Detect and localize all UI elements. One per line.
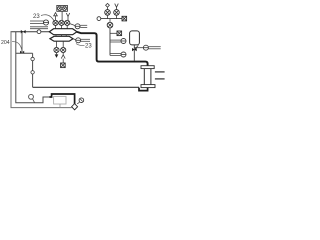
G2 stubs right [80,24,87,26]
arrow at valve [135,45,138,48]
pump block light box [54,96,66,104]
funnel above right valve [115,4,119,8]
stem from pair down [61,11,63,20]
port upper [155,71,165,73]
node circle lower [31,71,34,74]
svg-text:23: 23 [33,14,40,20]
right manifold: diamond above left valve [106,3,110,7]
outer down pipe left [11,32,72,108]
below-lens valve left [54,47,59,52]
diamond junction [72,104,78,110]
upper lens manifold [49,29,77,35]
vertical drop from lower valve [109,28,111,56]
lower lens manifold [50,36,73,41]
X-box below funnel [61,63,66,68]
valve below cylinder [132,48,134,51]
stem below cylinder [133,45,135,61]
valve V1 on main pipe [21,30,23,34]
thick supply pipe [77,32,148,66]
inner left vertical from main pipe [16,32,50,103]
leader from 23 to valve row [41,15,55,23]
svg-text:23: 23 [85,44,92,50]
arrow-up symbol [55,16,57,20]
drop from pump block [59,104,61,108]
branch to X-box [110,32,117,34]
right valve circle [114,10,120,16]
top solenoid valve block [57,5,68,11]
G3 stubs right [81,38,90,40]
box right edge with nodes [32,53,34,87]
left valve circle [105,10,111,16]
port circle left [97,17,101,21]
stubs right of gauge [149,46,161,48]
branch gauge 2 [110,53,121,55]
svg-text:204: 204 [1,40,10,46]
flanged vessel bottom cap [141,85,155,88]
stems between lenses [55,35,57,37]
branch to right gauge [134,47,143,49]
box top edge [16,52,33,54]
gauge G2 [75,24,80,29]
node circle upper [31,57,34,60]
lower valve circle [107,22,113,28]
thick outlet elbow [139,88,148,91]
gauge near diamond [79,98,84,103]
small cylinder tank [130,31,140,45]
flanged vessel top cap [141,66,154,69]
regulator gauge G1 [43,20,48,25]
valve on box top [20,51,22,54]
flanged vessel walls [143,69,145,85]
below-lens valve right [61,47,66,52]
stems valve row to upper lens [55,26,57,29]
node circle on main pipe [37,30,41,34]
stem to lower valve [109,19,111,23]
drain arrow below left valve [56,53,58,55]
leader 204 [12,42,22,51]
dark jog into pump block [49,94,74,104]
funnel symbol [66,13,69,17]
port lower [155,78,165,80]
return pipe long horizontal [33,86,139,88]
funnel below right valve [62,53,64,55]
X-box right of manifold [122,16,127,21]
main pipe left [11,31,50,33]
branch gauge 1 [110,39,121,41]
stem from main pipe to box [21,32,23,52]
valve row circles [53,20,58,25]
hose pair lower-left [30,26,48,28]
valve circle with stem bottom-left [29,94,34,99]
manifold line [101,18,122,20]
hose pair upper-left [30,20,44,22]
gauge G3 [76,38,81,43]
